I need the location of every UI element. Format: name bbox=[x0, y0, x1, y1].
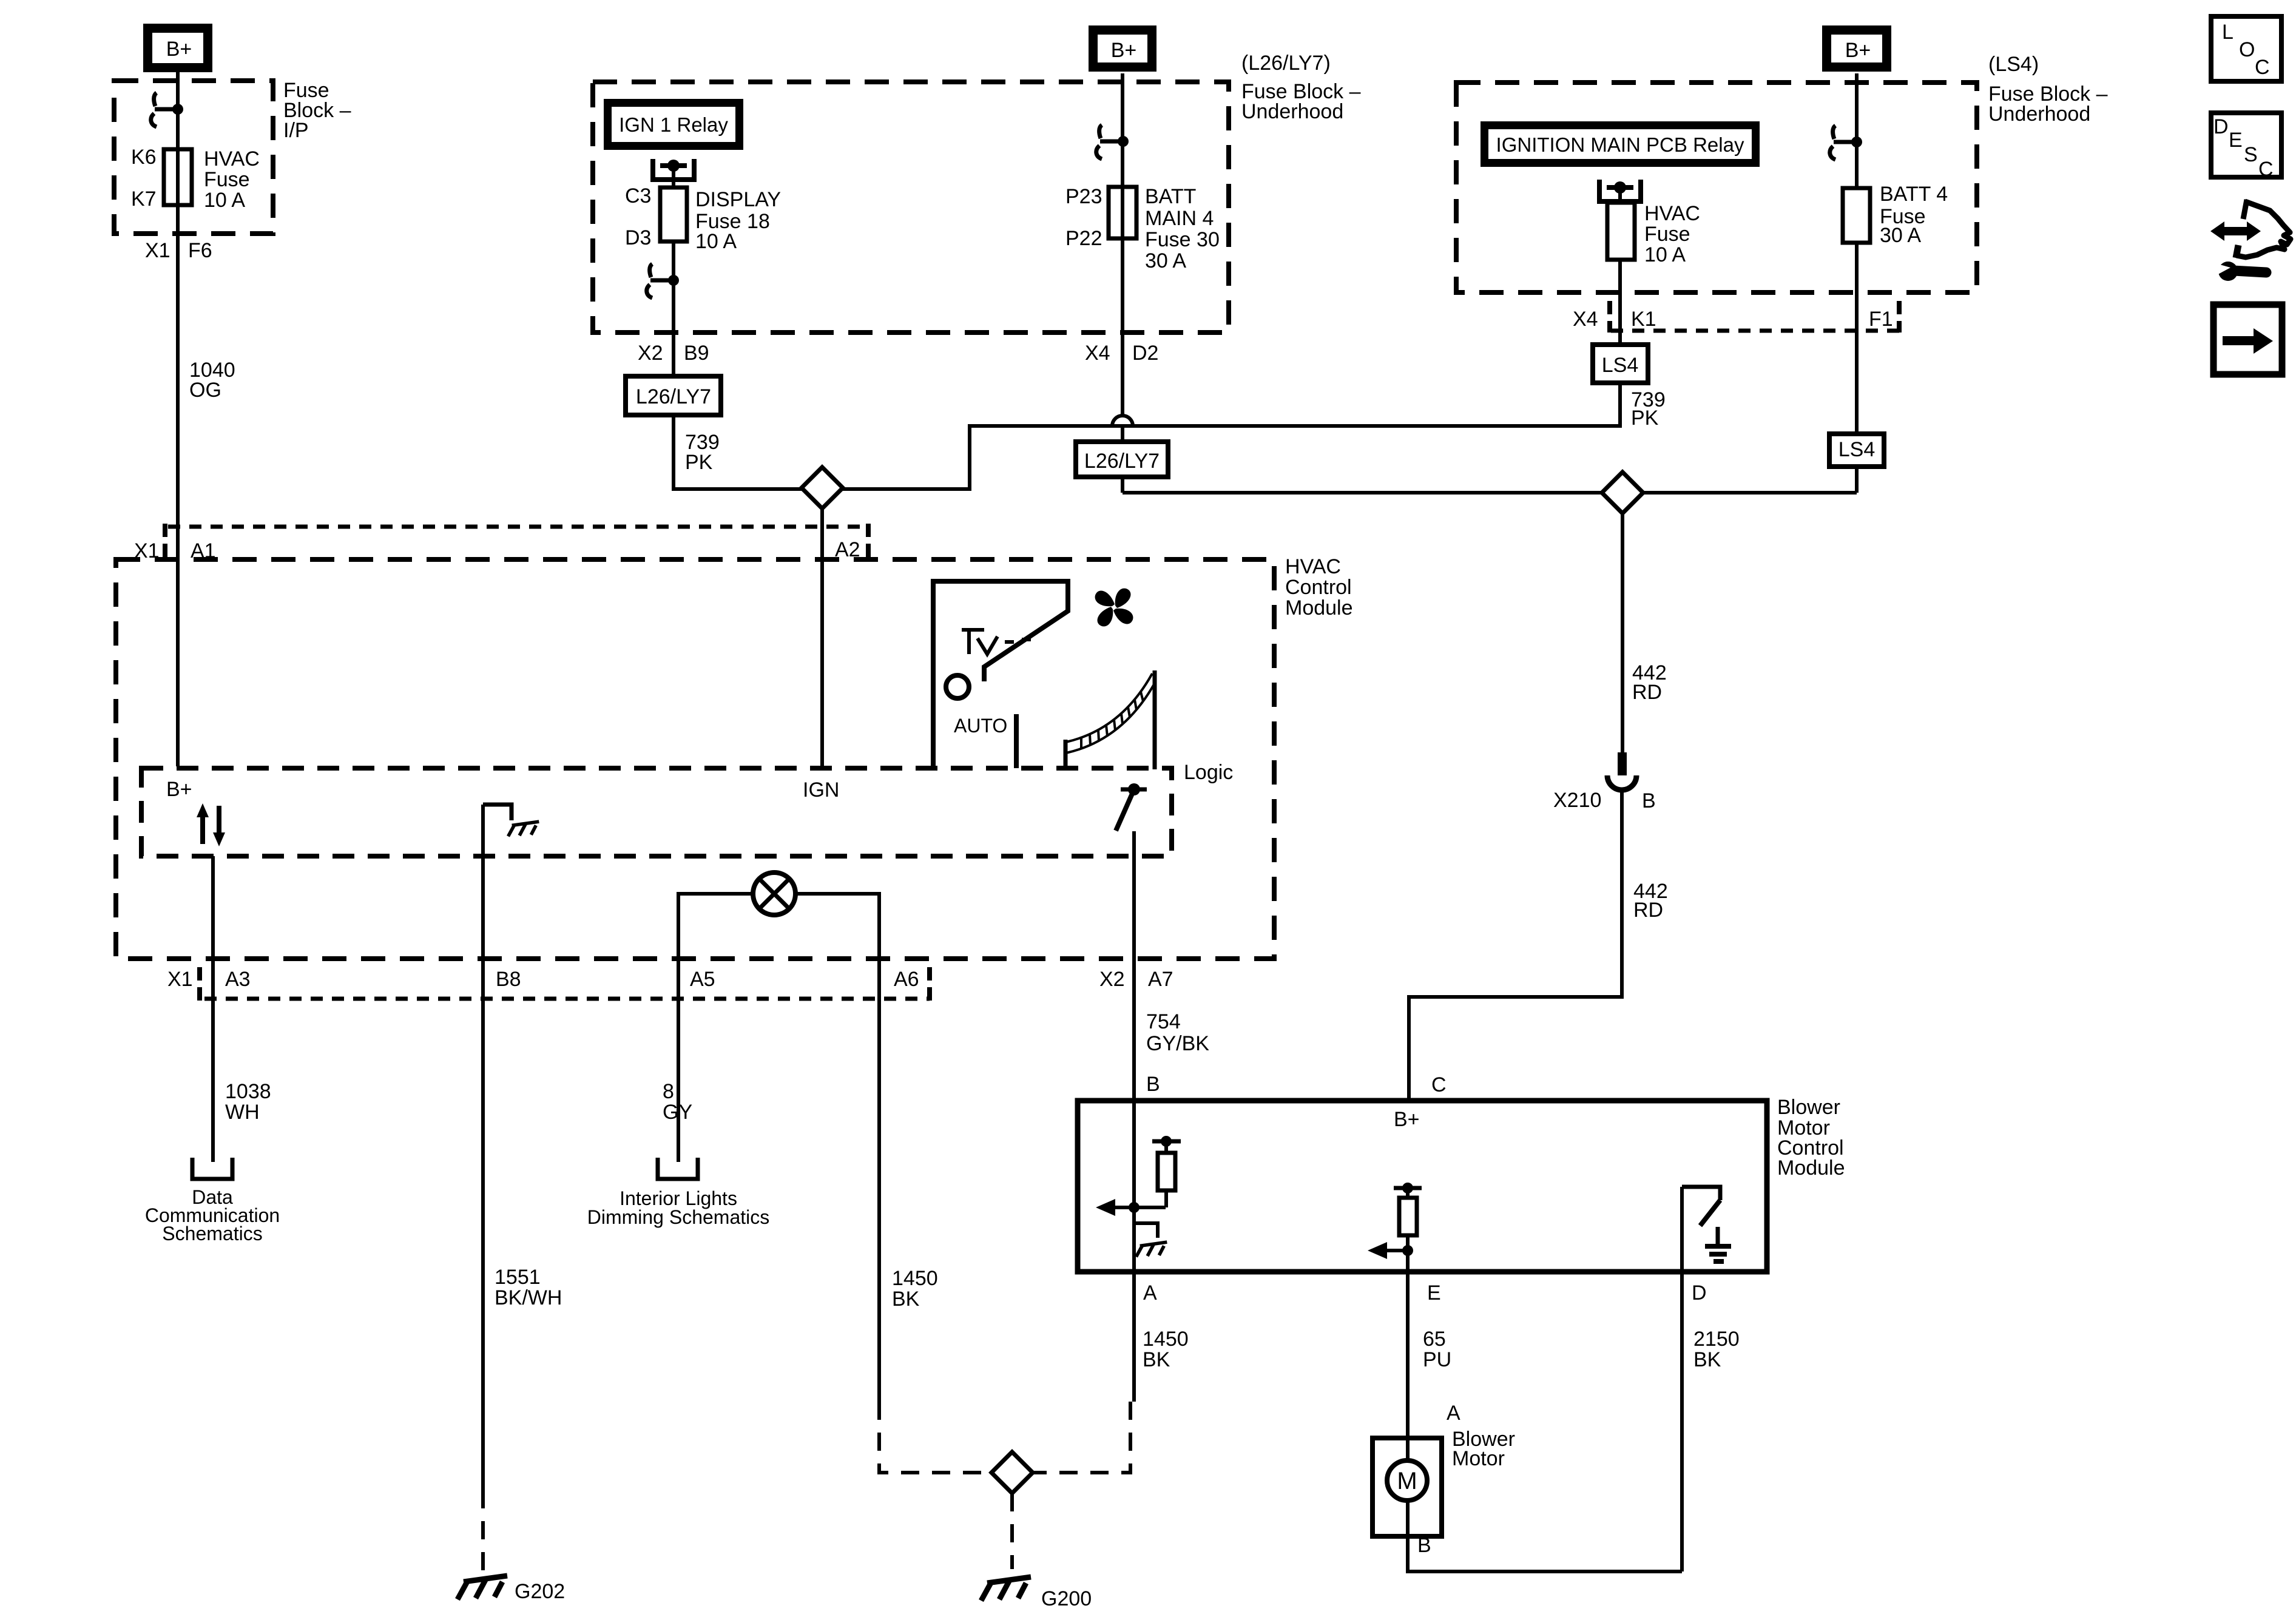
svg-text:8: 8 bbox=[663, 1080, 674, 1103]
svg-text:Underhood: Underhood bbox=[1988, 103, 2090, 126]
svg-text:Module: Module bbox=[1285, 596, 1353, 619]
svg-text:B: B bbox=[1146, 1073, 1160, 1096]
svg-text:E: E bbox=[1427, 1281, 1441, 1305]
svg-text:D: D bbox=[1692, 1281, 1707, 1305]
svg-text:A: A bbox=[1143, 1281, 1157, 1305]
svg-text:BK: BK bbox=[892, 1288, 920, 1311]
svg-text:C: C bbox=[1431, 1073, 1447, 1096]
svg-text:1038: 1038 bbox=[225, 1080, 271, 1103]
svg-text:AUTO: AUTO bbox=[954, 715, 1007, 737]
svg-text:BK: BK bbox=[1693, 1348, 1721, 1371]
svg-text:GY/BK: GY/BK bbox=[1146, 1032, 1209, 1055]
svg-text:10 A: 10 A bbox=[1644, 243, 1686, 266]
svg-text:A7: A7 bbox=[1148, 968, 1173, 991]
svg-text:A5: A5 bbox=[690, 968, 715, 991]
svg-text:X2: X2 bbox=[1099, 968, 1125, 991]
svg-text:RD: RD bbox=[1633, 899, 1663, 922]
svg-text:X4: X4 bbox=[1085, 342, 1110, 365]
svg-text:B+: B+ bbox=[166, 778, 192, 801]
svg-text:F1: F1 bbox=[1869, 308, 1893, 331]
svg-text:1450: 1450 bbox=[1143, 1328, 1189, 1351]
svg-text:A1: A1 bbox=[191, 539, 216, 562]
svg-text:D2: D2 bbox=[1132, 342, 1158, 365]
svg-text:(L26/LY7): (L26/LY7) bbox=[1241, 52, 1331, 75]
svg-text:C3: C3 bbox=[625, 184, 651, 208]
svg-text:PK: PK bbox=[1631, 407, 1659, 430]
svg-text:G202: G202 bbox=[515, 1580, 565, 1603]
svg-text:2150: 2150 bbox=[1693, 1328, 1740, 1351]
svg-text:Dimming Schematics: Dimming Schematics bbox=[587, 1206, 770, 1228]
svg-text:X1: X1 bbox=[167, 968, 193, 991]
svg-text:E: E bbox=[2229, 129, 2243, 152]
svg-text:P23: P23 bbox=[1065, 185, 1102, 208]
svg-text:X4: X4 bbox=[1573, 308, 1598, 331]
svg-text:A2: A2 bbox=[835, 538, 860, 561]
svg-text:HVAC: HVAC bbox=[1285, 555, 1341, 578]
svg-text:LS4: LS4 bbox=[1838, 438, 1876, 461]
svg-text:B+: B+ bbox=[166, 38, 192, 61]
svg-text:S: S bbox=[2244, 143, 2258, 166]
svg-text:BATT 4: BATT 4 bbox=[1880, 183, 1948, 206]
svg-text:B8: B8 bbox=[496, 968, 521, 991]
svg-text:HVAC: HVAC bbox=[1644, 202, 1700, 225]
svg-text:LS4: LS4 bbox=[1602, 354, 1639, 377]
svg-text:IGN 1 Relay: IGN 1 Relay bbox=[619, 113, 728, 136]
svg-text:1551: 1551 bbox=[495, 1266, 541, 1289]
svg-text:BK: BK bbox=[1143, 1348, 1170, 1371]
svg-text:B: B bbox=[1642, 789, 1656, 812]
svg-text:RD: RD bbox=[1632, 681, 1662, 704]
svg-text:Schematics: Schematics bbox=[162, 1223, 262, 1244]
svg-text:O: O bbox=[2239, 38, 2255, 61]
svg-text:X1: X1 bbox=[145, 239, 171, 262]
svg-text:A: A bbox=[1447, 1402, 1460, 1425]
svg-text:Fuse 30: Fuse 30 bbox=[1145, 228, 1220, 251]
svg-text:Fuse: Fuse bbox=[204, 168, 250, 191]
svg-text:HVAC: HVAC bbox=[204, 147, 260, 170]
svg-text:(LS4): (LS4) bbox=[1988, 53, 2039, 76]
svg-text:Module: Module bbox=[1777, 1156, 1845, 1180]
svg-text:Control: Control bbox=[1285, 576, 1352, 599]
svg-text:65: 65 bbox=[1423, 1328, 1446, 1351]
svg-text:K6: K6 bbox=[131, 146, 157, 169]
svg-text:L: L bbox=[2222, 21, 2234, 44]
svg-text:WH: WH bbox=[225, 1101, 260, 1124]
svg-text:754: 754 bbox=[1146, 1010, 1181, 1033]
svg-text:30 A: 30 A bbox=[1880, 224, 1921, 247]
svg-text:K1: K1 bbox=[1631, 308, 1656, 331]
svg-text:K7: K7 bbox=[131, 187, 157, 211]
svg-text:C: C bbox=[2255, 56, 2270, 79]
svg-text:I/P: I/P bbox=[283, 119, 309, 142]
svg-text:B+: B+ bbox=[1845, 39, 1871, 62]
svg-text:B9: B9 bbox=[684, 342, 709, 365]
svg-text:G200: G200 bbox=[1041, 1587, 1092, 1610]
svg-text:D3: D3 bbox=[625, 226, 651, 249]
svg-text:BK/WH: BK/WH bbox=[495, 1286, 562, 1309]
svg-text:PU: PU bbox=[1423, 1348, 1451, 1371]
svg-text:B+: B+ bbox=[1394, 1108, 1420, 1131]
svg-text:1450: 1450 bbox=[892, 1267, 938, 1290]
svg-text:OG: OG bbox=[189, 379, 221, 402]
svg-text:L26/LY7: L26/LY7 bbox=[636, 385, 711, 408]
svg-text:BATT: BATT bbox=[1145, 185, 1196, 208]
svg-text:Fuse: Fuse bbox=[1644, 223, 1690, 246]
svg-text:P22: P22 bbox=[1065, 227, 1102, 250]
svg-text:M: M bbox=[1397, 1468, 1417, 1494]
svg-text:Underhood: Underhood bbox=[1241, 100, 1343, 123]
svg-text:Blower: Blower bbox=[1777, 1096, 1840, 1119]
svg-text:D: D bbox=[2213, 115, 2229, 138]
svg-text:IGNITION MAIN PCB Relay: IGNITION MAIN PCB Relay bbox=[1496, 133, 1744, 156]
svg-text:DISPLAY: DISPLAY bbox=[695, 188, 781, 211]
svg-text:B: B bbox=[1417, 1534, 1431, 1557]
svg-text:X2: X2 bbox=[638, 342, 663, 365]
svg-text:X210: X210 bbox=[1553, 789, 1601, 812]
svg-text:10 A: 10 A bbox=[695, 230, 737, 253]
svg-text:A3: A3 bbox=[225, 968, 251, 991]
svg-text:30 A: 30 A bbox=[1145, 249, 1186, 272]
svg-text:PK: PK bbox=[685, 451, 713, 474]
svg-text:Motor: Motor bbox=[1452, 1447, 1505, 1470]
svg-text:10 A: 10 A bbox=[204, 189, 245, 212]
svg-text:X1: X1 bbox=[134, 539, 160, 562]
svg-text:MAIN 4: MAIN 4 bbox=[1145, 207, 1214, 230]
svg-text:L26/LY7: L26/LY7 bbox=[1084, 450, 1160, 473]
svg-text:Logic: Logic bbox=[1184, 761, 1233, 784]
svg-text:F6: F6 bbox=[188, 239, 212, 262]
svg-text:A6: A6 bbox=[894, 968, 919, 991]
svg-text:C: C bbox=[2258, 158, 2274, 181]
svg-text:B+: B+ bbox=[1111, 39, 1137, 62]
svg-text:IGN: IGN bbox=[803, 778, 839, 802]
svg-text:GY: GY bbox=[663, 1101, 692, 1124]
